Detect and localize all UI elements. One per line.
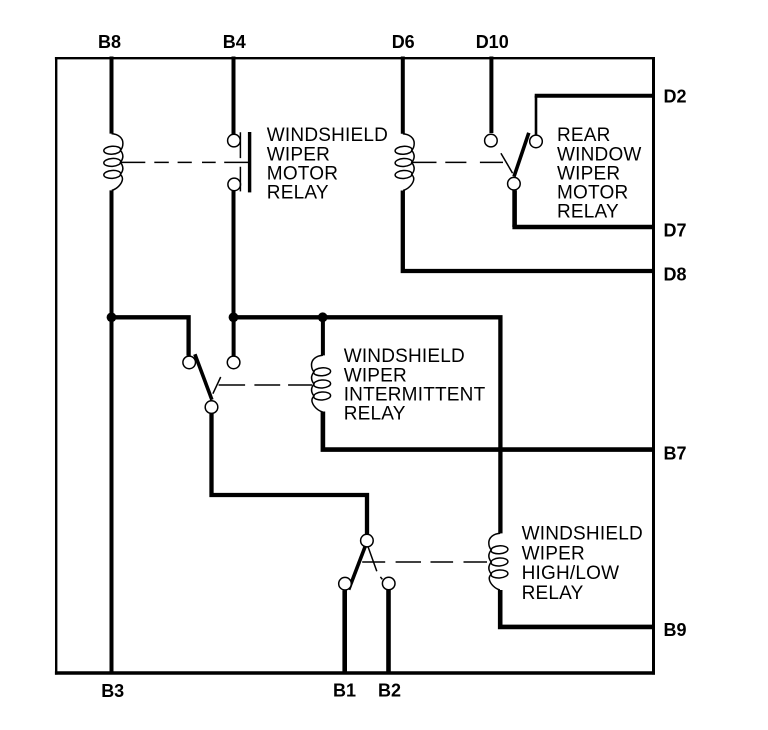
wire B4 stub [232,57,236,135]
label windshield wiper high/low relay [522,524,643,605]
svg-text:RELAY: RELAY [522,583,584,604]
wire D7 [512,225,654,229]
svg-text:MOTOR: MOTOR [557,183,628,204]
svg-text:D7: D7 [664,221,687,241]
svg-text:D2: D2 [664,86,687,106]
dashed actuator line coil L1 to contact [121,161,225,163]
wire D6 stub [401,57,405,134]
svg-text:WINDSHIELD: WINDSHIELD [522,524,643,545]
coil L3 windshield wiper intermittent relay [312,355,331,412]
dashed actuator line to high/low coil [362,561,487,563]
wire bus junction to intermittent coil [321,319,325,355]
border frame bottom [55,671,655,674]
switch blade intermittent relay [195,354,212,400]
svg-text:WIPER: WIPER [522,543,585,564]
svg-text:B8: B8 [98,32,121,52]
node junction at B4 bus [229,312,239,322]
contact pivot circle intermittent relay [205,401,218,414]
contact bar (motor relay) [248,132,251,192]
svg-text:B9: B9 [664,620,687,640]
switch throw ghost line (to D10 contact) [501,153,513,173]
label windshield wiper intermittent relay [344,346,486,425]
svg-text:WIPER: WIPER [344,365,407,386]
node junction at B8 bus [107,312,117,322]
svg-text:WINDOW: WINDOW [557,144,642,165]
contact pivot circle rear window relay [508,177,521,190]
contact terminal circle D10 [485,134,498,147]
switch blade high/low relay [349,546,366,590]
svg-text:WIPER: WIPER [557,163,620,184]
svg-text:B2: B2 [378,680,401,700]
svg-text:D10: D10 [476,32,509,52]
border frame top [55,57,655,59]
label windshield wiper motor relay [267,125,388,203]
wire high/low coil to B9 [500,590,654,627]
svg-text:WINDSHIELD: WINDSHIELD [344,346,465,367]
wire pivot down and over to high/low pivot [212,414,368,535]
node junction at intermittent coil [318,312,328,322]
wire B4 to bus [232,191,236,319]
svg-text:B1: B1 [333,680,356,700]
svg-text:WIPER: WIPER [267,144,330,165]
contact terminal circle to D2 [530,135,543,148]
wire B2 stub [386,590,391,672]
switch throw ghost line (intermittent) [213,377,221,394]
svg-text:REAR: REAR [557,125,611,146]
svg-text:INTERMITTENT: INTERMITTENT [344,385,486,406]
contact movable blade line (motor relay) [239,132,241,191]
wire intermittent coil to B7 [323,412,654,450]
svg-text:RELAY: RELAY [267,183,329,204]
border frame left [55,57,57,675]
svg-text:B3: B3 [101,681,124,701]
wire B1 stub [342,590,347,671]
svg-text:B7: B7 [664,443,687,463]
wire D10 stub [489,57,493,134]
svg-text:HIGH/LOW: HIGH/LOW [522,563,620,584]
coil L4 windshield wiper high/low relay [489,533,508,590]
wire D2 [535,94,654,98]
coil L2 rear window wiper motor relay (D6) [395,134,414,191]
contact terminal circle B (intermittent) [227,356,240,369]
svg-text:D6: D6 [392,32,415,52]
border frame right [652,57,655,675]
svg-text:RELAY: RELAY [557,202,619,223]
svg-text:RELAY: RELAY [344,404,406,425]
contact pivot circle high/low relay [361,534,374,547]
wire bus to intermittent contact A [112,317,189,355]
svg-text:D8: D8 [664,264,687,284]
contact terminal circle B2 [382,577,395,590]
label rear window wiper motor relay [557,125,642,222]
contact terminal circle A (intermittent) [183,356,196,369]
svg-text:MOTOR: MOTOR [267,163,338,184]
dashed actuator line to intermittent coil [219,384,312,386]
wire pivot to D7 [512,190,517,227]
dashed actuator line coil L2 to rear switch [413,161,504,163]
wire B8 stub [110,57,114,134]
switch throw ghost line (high/low) [368,547,382,580]
coil L1 windshield wiper motor relay (B8) [104,134,123,191]
wire B8/B3 vertical [110,190,114,671]
svg-text:B4: B4 [223,32,246,52]
switch blade rear window relay [514,133,529,177]
contact terminal circle B1 [339,577,352,590]
contact terminal circle (motor relay, top) [228,134,241,147]
wire bus B4 to high/low riser [234,317,501,533]
contact terminal circle (motor relay, bottom) [228,178,241,191]
wire D6 to D8 [403,191,654,272]
wire B4 junction down to contact B [232,319,236,356]
wire riser to D2 [535,96,538,136]
svg-text:WINDSHIELD: WINDSHIELD [267,125,388,146]
actuator link (motor relay) [224,161,249,163]
